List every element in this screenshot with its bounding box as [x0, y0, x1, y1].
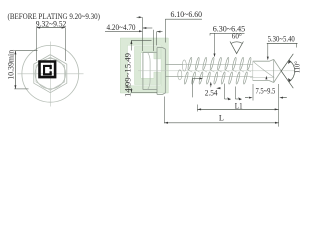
dimension L1 line	[197, 108, 278, 110]
top view hexagon outer	[34, 55, 67, 93]
angle 110 rays	[281, 54, 293, 88]
dimension L text	[219, 113, 224, 122]
drill cone	[274, 59, 282, 82]
svg-text:L1: L1	[235, 101, 243, 110]
svg-text:6.10~6.60: 6.10~6.60	[171, 10, 203, 19]
recess icon inner C	[43, 65, 52, 75]
svg-text:L: L	[219, 113, 224, 122]
thread crest loops bottom row	[184, 72, 248, 85]
dimension L line	[164, 122, 278, 124]
svg-text:10.39min: 10.39min	[6, 50, 15, 80]
angle 110 arc and arrows	[288, 60, 295, 82]
svg-text:2.54: 2.54	[205, 89, 218, 98]
dimension L1 text	[235, 101, 243, 110]
dimension 9.32~9.52 text	[36, 19, 67, 28]
screw axis centerline	[138, 70, 295, 72]
top view horizontal centerline	[18, 73, 84, 75]
top view outer circle (flange)	[22, 45, 79, 102]
dimension 6.10~6.60 lines	[157, 19, 202, 45]
side view shank	[166, 65, 184, 77]
side view head hex part	[143, 52, 157, 89]
watermark logo inner C	[135, 47, 161, 85]
dimension 14.99~15.49 text	[124, 53, 133, 97]
svg-text:110°: 110°	[292, 61, 300, 73]
thread angle 60 wedge	[230, 42, 243, 54]
dimension 4.20~4.70 lines	[105, 16, 153, 51]
thread helix flank lines	[188, 69, 251, 72]
top view inscribed circle	[35, 58, 65, 88]
side view flange	[157, 48, 165, 95]
watermark logo outer ring	[120, 38, 168, 93]
svg-text:60°: 60°	[232, 32, 242, 41]
recess icon outer square ring	[38, 60, 56, 78]
note BEFORE PLATING	[8, 12, 101, 21]
svg-text:5.30~5.40: 5.30~5.40	[268, 35, 295, 44]
dimension 6.10~6.60 text	[171, 10, 203, 19]
dimension 5.30~5.40 text	[268, 35, 295, 44]
dimension 6.30~6.45 text	[213, 24, 246, 33]
dimension 10.39min line and arrows	[14, 51, 37, 89]
dimension 5.30~5.40 lines	[267, 43, 298, 60]
svg-text:4.20~4.70: 4.20~4.70	[107, 23, 136, 32]
top view hexagon inner	[36, 57, 65, 90]
common right extension line	[278, 84, 280, 127]
drill pilot section	[250, 59, 274, 82]
dimension 6.30~6.45 leader	[210, 33, 245, 57]
thread root lines	[183, 65, 253, 77]
dimension 4.20~4.70 text	[107, 23, 136, 32]
svg-text:7.5~9.5: 7.5~9.5	[256, 87, 276, 96]
top view vertical centerline	[49, 42, 51, 107]
thread crest loops top row	[187, 57, 251, 70]
thread start loops	[178, 60, 187, 80]
dimension 10.39min text	[6, 50, 15, 80]
dimension 7.5~9.5 text	[256, 87, 276, 96]
dimension L1 extension stub	[196, 105, 198, 112]
thread angle 60 text	[232, 32, 242, 41]
dimension L extension	[163, 97, 165, 124]
dimension 2.54 lines	[193, 78, 242, 101]
dimension 14.99~15.49 lines	[125, 40, 157, 93]
dimension 2.54 text	[205, 89, 218, 98]
angle 110 text	[292, 61, 301, 73]
dimension 7.5~9.5 lines	[245, 76, 287, 101]
dimension 9.32~9.52 line and arrows	[36, 27, 65, 61]
